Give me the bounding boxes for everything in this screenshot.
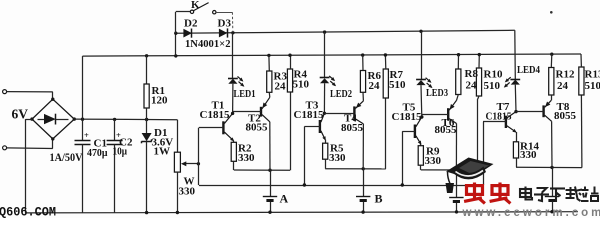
svg-text:LED1: LED1 — [234, 89, 256, 100]
svg-text:1N4001×2: 1N4001×2 — [185, 38, 231, 50]
switch K — [175, 12, 177, 33]
LED2 indicator — [324, 32, 326, 78]
svg-text:330: 330 — [425, 155, 442, 167]
resistor R7 510 — [385, 98, 387, 169]
svg-text:24: 24 — [557, 80, 569, 92]
resistor R13 510 — [580, 95, 583, 168]
wire rail left end down to C1 — [82, 56, 84, 140]
logo graduation cap — [446, 158, 494, 194]
LED3 indicator — [421, 31, 423, 79]
potentiometer W 330 — [177, 120, 179, 153]
main positive rail — [83, 54, 582, 56]
svg-text:LED3: LED3 — [426, 88, 448, 99]
resistor R14 330 — [516, 132, 518, 142]
svg-text:C1815: C1815 — [200, 109, 230, 121]
bridge corner junctions — [51, 98, 54, 101]
logo character chong 1 — [464, 183, 485, 204]
pot wiper arm — [185, 163, 199, 165]
svg-text:K: K — [191, 0, 200, 11]
transistor T1 C1815 — [222, 121, 224, 134]
svg-text:D3: D3 — [218, 18, 232, 30]
svg-text:R13: R13 — [585, 69, 600, 81]
svg-text:120: 120 — [151, 95, 168, 107]
transistor T7 C1815 — [505, 116, 507, 128]
svg-text:B: B — [375, 192, 383, 206]
svg-text:Q606.COM: Q606.COM — [0, 206, 56, 219]
resistor R1 120 — [145, 54, 148, 57]
LED4 indicator — [510, 79, 520, 81]
resistor R8 24 — [457, 53, 460, 56]
base feedback wire y185 — [199, 185, 483, 187]
logo character chong 2 — [490, 183, 511, 204]
node junction D1 R1 — [145, 118, 148, 121]
battery under stage 4 — [552, 167, 554, 196]
svg-text:A: A — [280, 192, 289, 206]
svg-text:C1815: C1815 — [486, 110, 512, 122]
battery under stage 3 — [456, 170, 458, 198]
transistor T3 C1815 — [319, 120, 321, 133]
capacitor C2 10u — [114, 119, 116, 140]
svg-text:510: 510 — [389, 79, 406, 91]
wire R2 to battery A node to R4 — [234, 169, 290, 171]
transistor T8 8055 — [542, 105, 544, 117]
svg-text:www.eeworm.com: www.eeworm.com — [462, 207, 600, 218]
svg-text:R12: R12 — [556, 69, 575, 81]
svg-text:LED4: LED4 — [517, 65, 541, 76]
logo text dianzi xiazaizhan — [520, 187, 532, 200]
transistor T5 C1815 — [414, 125, 416, 139]
diode D2 1N4001 — [183, 29, 192, 38]
svg-text:330: 330 — [179, 186, 196, 198]
diode D3 1N4001 — [219, 29, 228, 38]
wire R9 to battery C node to R10 — [421, 169, 478, 171]
wire T2 collector down — [269, 122, 271, 170]
svg-text:470μ: 470μ — [87, 148, 108, 159]
switch branch wire up — [174, 54, 177, 57]
resistor R12 24 — [550, 53, 553, 56]
svg-text:C1815: C1815 — [392, 111, 422, 123]
transistor T2 8055 — [260, 107, 262, 117]
transistor T4 8055 — [353, 106, 355, 121]
svg-text:510: 510 — [484, 80, 501, 92]
svg-text:10μ: 10μ — [113, 147, 128, 158]
T5 base wire down — [402, 131, 404, 185]
wire T4 collector down — [362, 124, 364, 169]
resistor R6 24 — [361, 53, 364, 56]
svg-text:1A/50V: 1A/50V — [50, 150, 83, 164]
node junction C2 — [113, 118, 116, 121]
resistor R9 330 — [420, 144, 422, 146]
svg-text:8055: 8055 — [341, 122, 364, 134]
resistor R3 24 — [267, 54, 270, 57]
zener diode D1 3.6V 1W — [146, 120, 148, 134]
resistor R4 510 — [290, 92, 292, 170]
top supply branch rail (through D2 D3) — [176, 32, 233, 34]
wire R5 to battery B node to R7 — [325, 168, 386, 170]
transistor T6 8055 — [447, 108, 449, 120]
svg-text:C1815: C1815 — [294, 109, 324, 121]
svg-text:D2: D2 — [184, 18, 198, 30]
svg-text:1W: 1W — [154, 146, 171, 158]
svg-text:24: 24 — [466, 80, 478, 92]
T7 base wire down — [483, 122, 485, 185]
svg-text:+: + — [84, 130, 89, 140]
scan speck — [550, 11, 553, 14]
svg-text:330: 330 — [520, 149, 537, 161]
svg-text:24: 24 — [369, 80, 381, 92]
battery B — [363, 169, 365, 197]
wire R14 to battery node to R13 — [516, 166, 582, 168]
LED1 indicator — [232, 33, 234, 78]
T3 base wire down — [304, 127, 306, 186]
svg-text:LED2: LED2 — [330, 89, 352, 100]
svg-text:330: 330 — [329, 152, 346, 164]
wire T6 collector down — [455, 124, 457, 171]
svg-text:8055: 8055 — [435, 124, 458, 136]
positive node wire y120 — [74, 118, 177, 121]
resistor R10 510 — [477, 100, 479, 170]
svg-text:330: 330 — [238, 152, 255, 164]
resistor R5 330 — [325, 140, 327, 144]
bridge inner diode — [38, 119, 45, 121]
svg-text:510: 510 — [293, 79, 310, 91]
input terminal lower — [3, 146, 7, 150]
svg-text:8055: 8055 — [246, 122, 269, 134]
input terminal upper — [3, 90, 7, 94]
switch right wire (dashed) — [216, 12, 232, 14]
wire top rail corner down to LED4 — [514, 30, 517, 79]
wire lower terminal to bridge bottom corner — [7, 147, 53, 150]
battery A — [270, 170, 272, 197]
svg-text:24: 24 — [275, 81, 287, 93]
junction top rail LED2 — [323, 30, 326, 33]
node junction C1 — [81, 118, 84, 121]
junction top rail LED1 — [231, 31, 234, 34]
svg-text:R8: R8 — [465, 68, 479, 80]
junction top rail LED3 — [419, 30, 422, 33]
bridge rectifier — [32, 99, 74, 139]
svg-text:510: 510 — [585, 80, 600, 92]
capacitor C1 470u — [75, 140, 91, 142]
bottom ground rail — [26, 212, 578, 213]
wire T8 collector down — [551, 121, 553, 167]
svg-text:R10: R10 — [484, 69, 503, 81]
svg-text:8055: 8055 — [554, 110, 577, 122]
wire pot wiper / T1 base vertical — [198, 128, 200, 185]
wire upper terminal to bridge top corner — [7, 91, 53, 93]
resistor R2 330 — [233, 141, 235, 143]
wire bridge negative corner to ground rail — [26, 119, 32, 121]
